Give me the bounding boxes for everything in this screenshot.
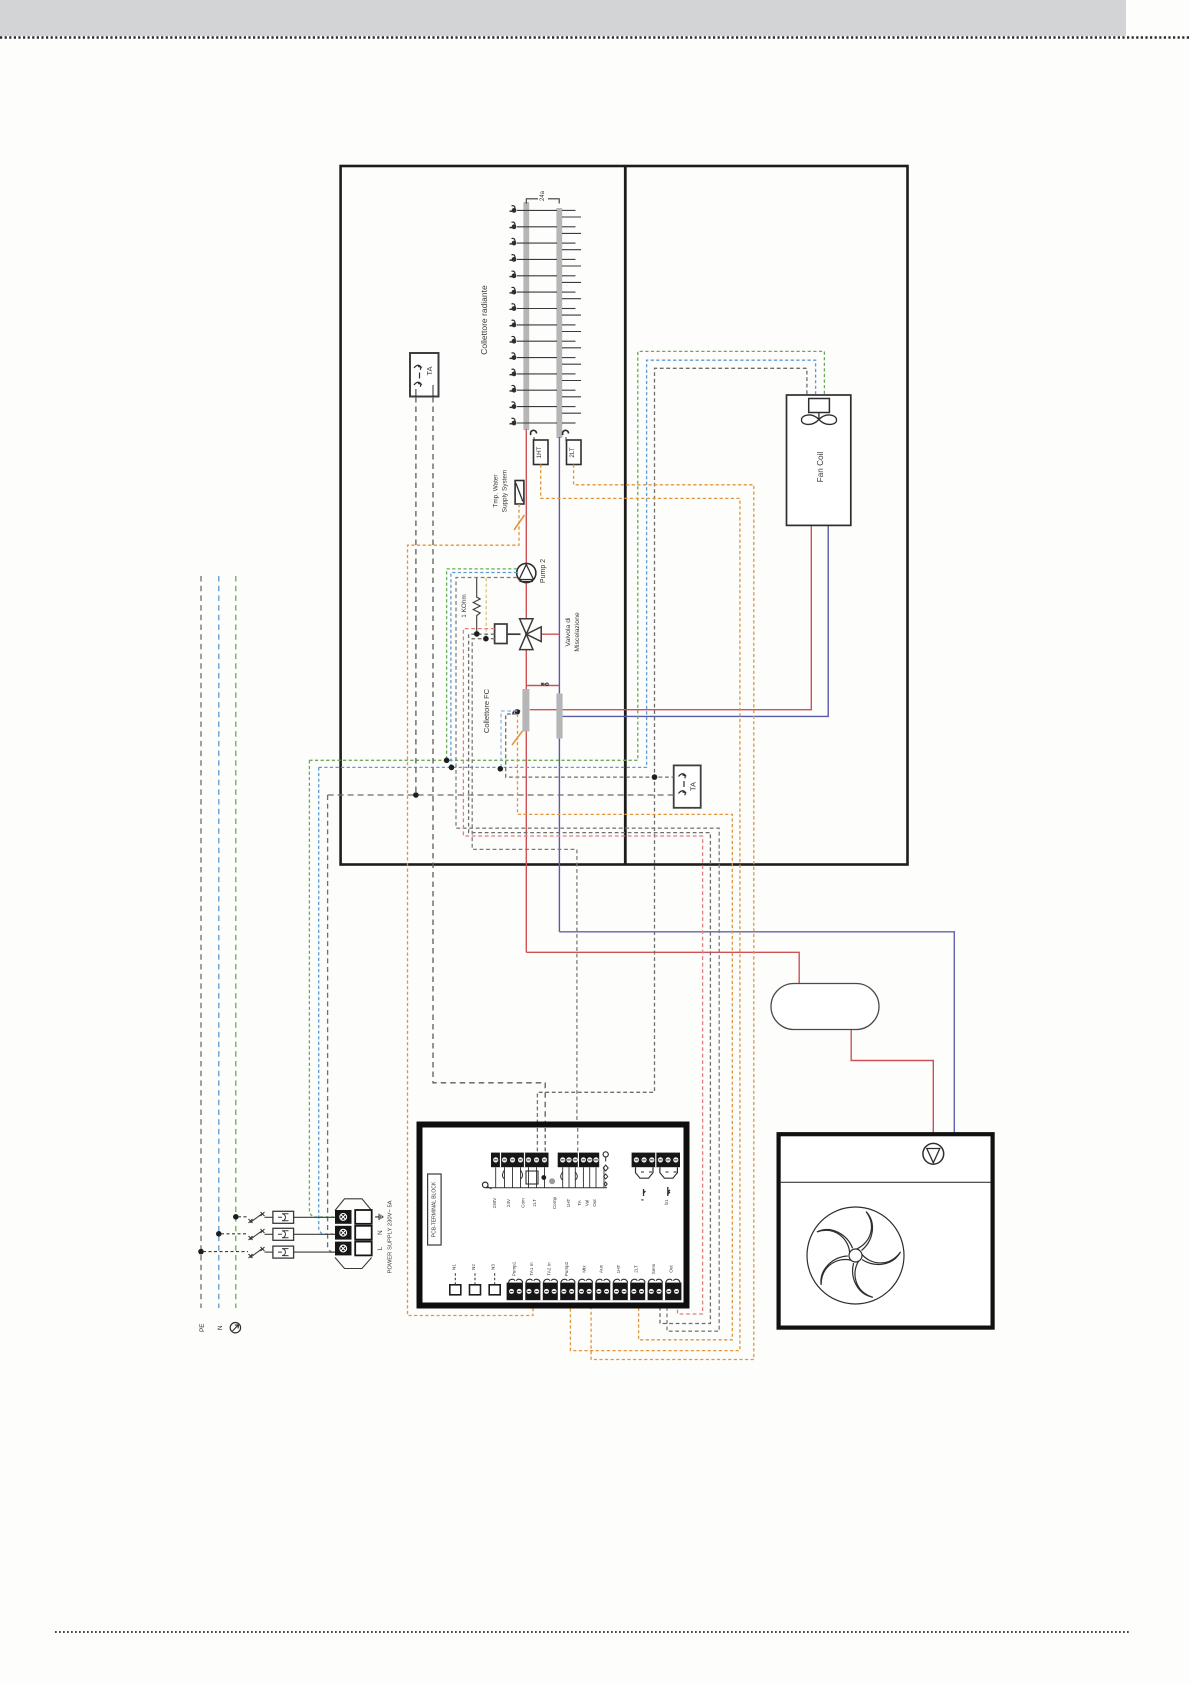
svg-text:a: a <box>640 1198 645 1201</box>
wire FC sensor gray to TA2 <box>506 714 674 777</box>
heat pump outdoor unit box <box>779 1134 993 1327</box>
pipe blue FC collector to fan coil <box>562 526 828 716</box>
wire fan coil gray <box>537 368 807 1152</box>
svg-text:2LT: 2LT <box>569 447 576 457</box>
svg-text:TA: TA <box>577 1199 582 1205</box>
svg-text:Mix: Mix <box>581 1265 586 1273</box>
wire pump control gray <box>456 578 719 1332</box>
svg-text:1 KOhm: 1 KOhm <box>461 594 468 617</box>
svg-text:Out: Out <box>592 1199 597 1207</box>
wire blue main fan coil <box>319 360 816 767</box>
sensor 2LT lead <box>565 437 567 441</box>
svg-text:Supply System: Supply System <box>502 470 509 513</box>
svg-text:b1: b1 <box>664 1199 669 1205</box>
pipe red FC collector top bridge <box>526 685 559 687</box>
wire pump green <box>447 569 517 760</box>
svg-text:1HT: 1HT <box>536 446 543 458</box>
svg-text:Aux: Aux <box>599 1264 604 1273</box>
manifold top dimension bracket <box>526 199 559 204</box>
resistor tail wire tan <box>485 578 487 639</box>
svg-text:Pump2: Pump2 <box>564 1261 569 1276</box>
fuse PE <box>273 1246 294 1258</box>
mixing valve actuator box <box>495 624 507 644</box>
wire green main fan coil <box>309 351 824 760</box>
TA2 contact squiggle <box>679 774 686 796</box>
PCB terminal block board <box>420 1125 687 1306</box>
fuse L <box>273 1211 294 1223</box>
wire TA1 lead b <box>433 397 545 1152</box>
wire orange 2LT <box>574 465 754 1360</box>
wire mains PE gray <box>200 576 202 1308</box>
svg-text:1HT: 1HT <box>566 1198 571 1207</box>
pipe red FC collector to fan coil <box>530 526 812 710</box>
wire mains L green <box>235 576 237 1308</box>
wire actuator pink <box>463 629 702 1314</box>
manifold loop stubs right <box>562 210 581 423</box>
earth terminal chain <box>603 1152 608 1157</box>
svg-text:Com: Com <box>521 1198 526 1208</box>
svg-text:Out: Out <box>669 1265 674 1273</box>
fan coil motor box <box>809 399 830 413</box>
fuse leads to terminal <box>294 1217 335 1252</box>
fuse N <box>273 1228 294 1240</box>
svg-text:TA1 In: TA1 In <box>529 1262 534 1276</box>
radiant manifold return bar <box>556 208 562 438</box>
svg-text:24V: 24V <box>506 1198 511 1207</box>
label PCB-TERMINAL BLOCK <box>428 1174 442 1245</box>
svg-text:230V: 230V <box>492 1197 497 1209</box>
header bar <box>0 0 1126 36</box>
supply terminal block <box>335 1199 372 1269</box>
terminal strip top A <box>491 1153 549 1168</box>
terminal strip bottom <box>507 1283 682 1301</box>
sensor 1HT box <box>534 440 549 465</box>
wire orange tmp sensor <box>408 504 534 1316</box>
FC pipe sensor clamp <box>513 710 520 714</box>
junction dots <box>198 631 657 1254</box>
Tmp water supply sensor well <box>515 481 524 505</box>
thermostat TA room 2 box <box>674 765 701 807</box>
svg-text:Pump 2: Pump 2 <box>540 559 547 583</box>
svg-text:POWER SUPPLY 230V~ 5A: POWER SUPPLY 230V~ 5A <box>388 1200 394 1273</box>
buffer tank oval <box>771 984 879 1030</box>
bottom dotted rule <box>55 1631 1130 1633</box>
switch slash FC sensor <box>512 731 523 745</box>
pipe return dark blue: manifold return down <box>558 437 560 932</box>
pipe red valve side port to return <box>541 633 559 635</box>
air vent on bridge <box>541 683 548 686</box>
relay plug outlines <box>636 1167 678 1178</box>
mains switch L <box>238 1212 273 1223</box>
mains label L phase symbol <box>230 1323 240 1333</box>
sensor 1HT lead <box>533 437 535 441</box>
pipe red horizontal to oval <box>526 952 799 983</box>
TA1 contact squiggle <box>414 365 421 387</box>
terminal labels earth N L <box>375 1214 384 1251</box>
FC collector supply bar <box>522 689 529 732</box>
fan coil propeller <box>801 413 836 425</box>
svg-text:Tmp. Water: Tmp. Water <box>493 474 500 508</box>
svg-text:N: N <box>377 1230 384 1234</box>
actuator stem <box>507 633 521 635</box>
svg-text:N1: N1 <box>451 1264 456 1270</box>
heat pump inner divider <box>781 1181 991 1183</box>
pipe supply red: manifold to pump to valve to FC collector and down <box>525 429 527 952</box>
svg-text:L: L <box>377 1246 384 1250</box>
wire blue to supply terminal <box>319 767 334 1234</box>
mixing valve 3-way <box>520 619 542 650</box>
heat pump circulator circle <box>923 1143 944 1164</box>
svg-text:TA: TA <box>425 366 434 375</box>
wire orange 1HT <box>541 465 740 1351</box>
top dotted rule <box>0 36 1190 38</box>
pump 2 circle <box>517 563 536 582</box>
mains switch PE <box>203 1247 273 1258</box>
FC sensor junction node <box>515 709 520 714</box>
wire TA1 lead a <box>415 397 417 795</box>
svg-text:2LT: 2LT <box>532 1199 537 1207</box>
wire valve actuator gray <box>469 634 711 1323</box>
fan coil box <box>787 395 851 525</box>
svg-text:Comp: Comp <box>552 1196 557 1209</box>
pump 2 impeller triangle <box>519 565 533 580</box>
wire green to supply terminal <box>309 760 334 1217</box>
svg-text:N: N <box>217 1325 224 1330</box>
svg-text:Collettore radiante: Collettore radiante <box>479 285 489 355</box>
pcb internal bus <box>486 1187 607 1189</box>
svg-text:1HT: 1HT <box>616 1264 621 1273</box>
heat pump fan spiral <box>807 1207 904 1304</box>
svg-text:Fan Coil: Fan Coil <box>816 452 825 483</box>
wire gray to supply terminal <box>328 795 334 1252</box>
wire mains N blue <box>218 576 220 1308</box>
terminal strip top B <box>558 1153 600 1168</box>
return bar bottom sensor hook <box>563 430 569 435</box>
svg-text:PCB-TERMINAL BLOCK: PCB-TERMINAL BLOCK <box>432 1181 438 1237</box>
wire TA bus gray <box>328 794 674 796</box>
resistor 1 KOhm <box>473 578 480 634</box>
room divider wall <box>624 166 627 865</box>
svg-text:TA2 In: TA2 In <box>546 1262 551 1276</box>
pipe red oval to heatpump pump <box>851 1030 933 1144</box>
wire orange FC sensor <box>518 714 733 1340</box>
wire valve actuator aux <box>472 639 577 1152</box>
thermostat TA room 1 box <box>410 353 439 397</box>
supply bar bottom sensor hook <box>531 430 537 435</box>
mains switch N <box>221 1229 273 1240</box>
FC collector return bar <box>556 694 562 739</box>
pipe blue horizontal to heat pump <box>559 932 954 1133</box>
outer room box <box>341 166 908 865</box>
terminal strip top C <box>632 1153 680 1168</box>
wire pump blue <box>451 573 517 768</box>
wire stubs into pcb top <box>537 1128 577 1153</box>
switch slash tmp sensor <box>514 515 525 530</box>
wire FC sensor light blue <box>501 711 517 769</box>
sensor 2LT box <box>567 440 582 465</box>
spare connector squares <box>450 1285 461 1295</box>
svg-text:2LT: 2LT <box>634 1265 639 1273</box>
svg-text:Sens: Sens <box>651 1263 656 1274</box>
svg-text:24a: 24a <box>540 190 546 201</box>
manifold vent valves left <box>510 206 516 425</box>
manifold rungs <box>517 210 557 423</box>
radiant manifold supply bar <box>523 202 529 430</box>
svg-text:Val: Val <box>585 1200 590 1206</box>
svg-text:N2: N2 <box>471 1264 476 1270</box>
svg-text:Collettore FC: Collettore FC <box>482 688 491 733</box>
svg-text:PE: PE <box>199 1323 206 1332</box>
svg-text:TA: TA <box>689 782 698 791</box>
svg-text:Pump1: Pump1 <box>511 1261 516 1276</box>
svg-text:N3: N3 <box>491 1264 496 1270</box>
svg-text:Miscelazione: Miscelazione <box>574 612 581 652</box>
svg-text:Valvola di: Valvola di <box>565 617 572 646</box>
